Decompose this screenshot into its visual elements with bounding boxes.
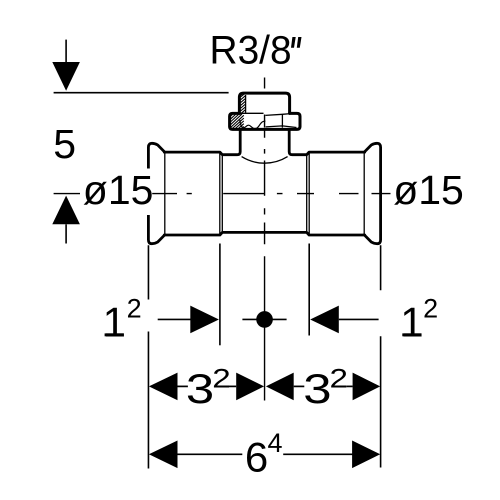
- svg-text:5: 5: [53, 121, 76, 167]
- svg-text:R3/8: R3/8: [210, 28, 292, 73]
- svg-text:2: 2: [330, 364, 349, 394]
- svg-text:1: 1: [400, 298, 423, 345]
- svg-text:1: 1: [103, 298, 126, 345]
- svg-text:3: 3: [303, 365, 331, 412]
- svg-text:ø15: ø15: [83, 167, 154, 213]
- svg-text:6: 6: [245, 434, 268, 481]
- svg-text:2: 2: [423, 294, 438, 324]
- svg-text:3: 3: [186, 365, 214, 412]
- svg-text:2: 2: [212, 364, 231, 394]
- svg-text:4: 4: [268, 428, 283, 458]
- svg-text:2: 2: [127, 294, 142, 324]
- svg-text:ø15: ø15: [393, 167, 464, 213]
